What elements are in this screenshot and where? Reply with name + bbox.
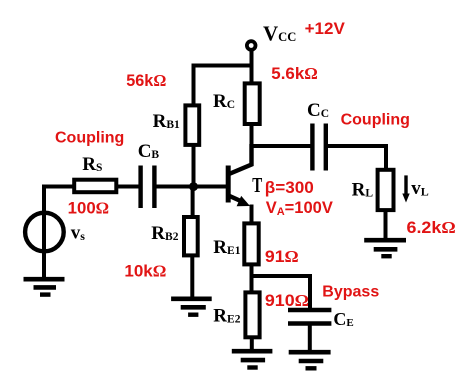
label +12V	[305, 20, 345, 38]
label RL	[352, 180, 374, 201]
svg-text:vL: vL	[411, 178, 429, 199]
label CE (capacitor label)	[333, 309, 353, 329]
wire RE2 to ground	[250, 337, 254, 350]
svg-text:T: T	[252, 173, 262, 197]
svg-text:910Ω: 910Ω	[265, 291, 309, 310]
label Coupling right	[341, 111, 410, 128]
wire CB to transistor base	[157, 185, 228, 189]
resistor RC	[245, 83, 260, 124]
label CC (capacitor label)	[307, 100, 329, 121]
label 5.6kOhm	[271, 64, 318, 83]
svg-text:6.2kΩ: 6.2kΩ	[407, 218, 456, 237]
wire RE1 to emitter junction	[250, 264, 254, 278]
svg-text:RB2: RB2	[151, 223, 178, 244]
label vs (source label)	[71, 223, 86, 244]
wire RL to ground	[384, 210, 388, 239]
resistor RS	[74, 180, 116, 193]
node: base junction dot	[189, 182, 198, 191]
wire emitter junction to RE2	[250, 274, 254, 293]
svg-text:91Ω: 91Ω	[265, 247, 299, 266]
transistor T collector lead	[229, 144, 252, 174]
wire top rail RB1 to VCC column	[194, 66, 252, 107]
label 56kOhm	[126, 71, 166, 90]
resistor RE2	[245, 292, 259, 337]
capacitor CC	[312, 124, 325, 171]
resistor RB2	[184, 217, 198, 255]
wire CE to ground	[308, 326, 312, 352]
resistor RL	[378, 170, 394, 210]
svg-text:5.6kΩ: 5.6kΩ	[271, 64, 318, 83]
svg-text:vs: vs	[71, 223, 86, 244]
label RE2	[213, 306, 240, 327]
svg-text:RB1: RB1	[153, 111, 180, 132]
wire RS to CB	[116, 185, 139, 189]
wire: input rail from vs corner to RS	[44, 187, 74, 282]
label VA=100V	[266, 199, 333, 218]
ground (RL)	[364, 240, 406, 256]
svg-text:Coupling: Coupling	[55, 130, 124, 147]
wire CC to RL	[328, 146, 386, 170]
svg-text:VA=100V: VA=100V	[266, 199, 333, 218]
label RC	[213, 91, 235, 112]
wire RC to collector junction	[250, 124, 254, 148]
svg-text:VCC: VCC	[263, 22, 296, 46]
svg-text:β=300: β=300	[265, 179, 314, 197]
label Coupling left	[55, 130, 124, 147]
source vs circle	[25, 213, 64, 252]
arrow vL	[402, 175, 409, 202]
svg-text:Bypass: Bypass	[322, 284, 379, 301]
label RS	[82, 154, 102, 175]
label Bypass	[322, 284, 379, 301]
label CB	[138, 141, 160, 162]
wire emitter junction to CE	[250, 276, 311, 308]
svg-text:RS: RS	[82, 154, 102, 175]
ground (RB2)	[171, 299, 212, 315]
svg-text:RE2: RE2	[213, 306, 240, 327]
transistor T emitter lead with arrow	[229, 196, 252, 223]
label RB1	[153, 111, 180, 132]
label 100Ohm	[68, 199, 109, 218]
capacitor CE	[288, 310, 331, 324]
svg-text:100Ω: 100Ω	[68, 199, 109, 218]
svg-text:CC: CC	[307, 100, 329, 121]
ground (vs)	[24, 279, 65, 294]
svg-text:Coupling: Coupling	[341, 111, 410, 128]
svg-text:RE1: RE1	[213, 237, 240, 258]
capacitor CB	[141, 166, 155, 209]
svg-text:56kΩ: 56kΩ	[126, 71, 166, 90]
wire RB2 to ground	[190, 255, 194, 298]
label RE1	[213, 237, 240, 258]
svg-text:CB: CB	[138, 141, 160, 162]
resistor RB1	[185, 105, 199, 144]
label beta=300	[265, 179, 314, 197]
label T	[252, 173, 262, 197]
wire RB1 to base rail	[192, 145, 196, 188]
svg-text:RC: RC	[213, 91, 235, 112]
label 6.2kOhm	[407, 218, 456, 237]
svg-text:RL: RL	[352, 180, 374, 201]
svg-text:10kΩ: 10kΩ	[124, 262, 166, 281]
label 10kOhm	[124, 262, 166, 281]
wire collector junction to CC	[250, 144, 311, 148]
terminal VCC	[247, 41, 256, 50]
resistor RE1	[244, 223, 258, 264]
wire VCC to RC	[250, 51, 254, 85]
svg-text:+12V: +12V	[305, 20, 345, 38]
label RB2	[151, 223, 178, 244]
wire base rail to RB2	[191, 185, 195, 217]
ground (RE2)	[232, 351, 273, 367]
svg-text:CE: CE	[333, 309, 353, 329]
label 91Ohm	[265, 247, 299, 266]
label vL	[411, 178, 429, 199]
label 910Ohm	[265, 291, 309, 310]
label VCC	[263, 22, 296, 46]
transistor T base bar	[226, 166, 231, 203]
ground (CE)	[289, 352, 331, 368]
